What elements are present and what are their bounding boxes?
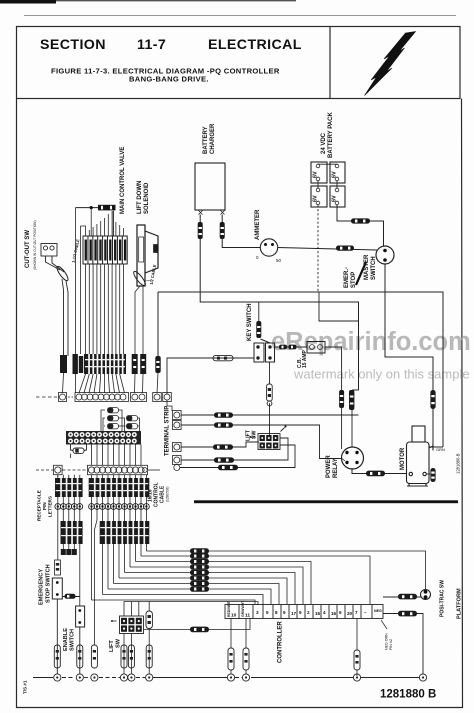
svg-text:AMMETER: AMMETER [255,209,261,240]
wire jog terminal 397 to 415 [167,400,172,411]
svg-text:LIFT DOWN: LIFT DOWN [137,181,143,214]
svg-text:BANG-BANG DRIVE.: BANG-BANG DRIVE. [129,75,209,84]
svg-text:RECEPTACLE: RECEPTACLE [37,490,42,521]
key switch S2 [254,339,275,362]
wire fuse to valve drop [112,211,114,236]
solenoid cable label [146,264,157,285]
wire ORN terminal to bus B junction [181,414,359,416]
wire charger right lead to ammeter [222,215,260,248]
wire label boxes row 477 [55,478,149,497]
svg-text:(1280/508): (1280/508) [166,487,170,502]
controller terminal block [225,605,383,619]
svg-text:11-7: 11-7 [137,37,166,53]
master switch label [344,254,377,288]
receptacle label [37,490,53,521]
svg-text:1281880-B: 1281880-B [456,453,461,474]
connector WHT/BLK relay coil wire [339,390,344,408]
connector on estop-enable link [65,594,76,599]
svg-text:STOP SWITCH: STOP SWITCH [46,564,52,603]
wire staircase above cluster [81,208,124,236]
connector BRN posi wire [398,594,417,600]
wire field valve to tstrip [76,208,124,354]
platform label [457,588,463,619]
svg-text:4: 4 [323,610,326,615]
diode cluster [101,408,140,432]
lift sw lower label [109,638,122,652]
header frame [17,27,461,99]
battery charger U1 [195,163,225,210]
battery B2 6V [330,162,345,183]
emergency stop label [39,564,52,605]
lift switch block lower [111,616,144,634]
key switch label [247,303,253,341]
lift cutout switch block [250,425,287,449]
terminal strip TS main block [66,431,141,445]
svg-text:KEY SWITCH: KEY SWITCH [247,303,253,341]
svg-text:SW: SW [252,431,258,439]
master switch S1 [376,246,394,264]
motor M [407,426,430,486]
svg-text:GRN: GRN [436,447,445,452]
wire battery interconnects [318,164,337,188]
battery B3 6V [311,186,327,207]
T/S #1 label [23,680,28,694]
wire key switch row to CB [275,346,308,348]
scan artifact faint line [24,14,456,17]
emergency stop switch [52,560,62,599]
cut-out switch label [25,220,37,270]
motor plus terminal [430,444,446,453]
svg-text:LIFT: LIFT [109,640,115,652]
svg-text:EMER.-: EMER.- [344,267,350,288]
svg-text:ELECTRICAL: ELECTRICAL [208,37,302,53]
wire lower to right terminal [383,614,423,675]
connector on key switch wire [213,355,233,360]
main control valve label [120,147,126,214]
svg-text:BATTERY: BATTERY [203,126,209,154]
posi-trac label [440,580,446,617]
svg-text:3: 3 [256,610,259,615]
connector on lower right wire [398,611,417,617]
wire coil wire to relay [341,408,343,449]
header title SECTION 11-7 ELECTRICAL [40,37,302,53]
battery pack label [321,112,334,158]
connector charger left (RED) [198,222,203,239]
wire controller bottom drops [231,619,357,677]
svg-text:eRepairinfo.com: eRepairinfo.com [271,328,471,356]
wire cut-out leads [46,256,69,356]
wire CB to relay coil [325,347,342,390]
svg-text:MOTOR: MOTOR [400,447,406,470]
svg-text:STOP: STOP [351,272,357,288]
connector labels on bend runs [190,548,209,592]
power relay K1 [342,447,364,469]
wire master drop to motor plus [429,409,433,448]
neg pin annotation [381,620,393,650]
svg-text:10: 10 [231,613,237,619]
drawing number vertical [456,453,461,474]
svg-text:20: 20 [347,611,353,616]
cut-out switch [41,244,57,257]
wire estop down [56,599,58,674]
bottom terminal circles [54,674,427,681]
lightning bolt logo [365,32,416,96]
controller cell labels [227,600,382,619]
wire bus A into motor plus [437,446,444,448]
cable label 1-1/2 [71,238,81,263]
wire terminal to key switch [167,358,254,394]
terminal strip label [165,406,171,456]
wire bends control cable to controller [92,551,426,605]
svg-text:16: 16 [331,611,337,616]
svg-text:7: 7 [355,610,358,615]
connector WHT on master drop [430,390,435,409]
watermark eRepairinfo.com [271,328,471,356]
svg-text:15 AMP: 15 AMP [302,349,308,368]
connector above key switch [256,321,261,338]
wire LT BLU terminal to relay [181,425,342,459]
connector pair on CB wire [279,345,297,350]
wire bus A from solenoid area [158,292,443,447]
receptacle connector row [36,465,160,474]
svg-text:RELAY: RELAY [333,458,339,478]
header caption [51,67,280,84]
svg-text:8: 8 [275,610,278,615]
heavy divider line [194,500,458,503]
terminal screw row [36,393,171,402]
control cable label [148,482,170,507]
battery B4 6V [330,186,345,207]
wire enable down [79,627,81,674]
connector LT GRN [218,465,238,470]
svg-text:15: 15 [315,611,321,616]
svg-text:11: 11 [245,613,250,619]
svg-text:6V: 6V [332,195,338,202]
wire lift sw feeds [124,602,258,675]
connector charger right (BLK) [220,222,225,239]
ammeter label [255,209,261,240]
svg-text:SW: SW [116,638,122,648]
connector LT BLU [214,422,233,427]
connector white below controller 3 [354,650,360,670]
wire terminal to lift cutout loop [180,445,295,468]
svg-text:NEG: NEG [374,609,382,613]
ammeter M1 [256,239,282,263]
scan artifact top bar [0,0,296,4]
svg-text:9: 9 [283,610,286,615]
svg-text:NEG ORN: NEG ORN [385,633,389,650]
svg-text:CHARGER: CHARGER [210,123,216,154]
svg-text:–: – [364,610,367,615]
svg-text:5: 5 [266,610,269,615]
connector on lift cutout wire [213,444,233,449]
posi-trac switch [421,590,431,600]
lift sw block label [246,429,258,441]
page number [380,689,436,701]
wire relay to motor [352,468,406,474]
wire charger left lead / bus B [200,215,358,391]
svg-text:6V: 6V [313,171,319,178]
battery charger label [203,123,216,154]
svg-text:6V: 6V [313,195,319,202]
bottom terminal bus dashed [33,677,419,679]
circuit breaker CB 15A [307,342,325,354]
wire battery negative dotted [317,205,319,292]
wire bus B drop to relay [352,390,359,447]
terminal column right of strip [173,411,182,471]
jumper loop below strip [71,445,87,454]
connector white below controller 1 [228,648,234,670]
svg-text:LETTERS: LETTERS [48,496,53,517]
svg-text:MAIN CONTROL VALVE: MAIN CONTROL VALVE [120,147,126,214]
receptacle pin circles row [55,504,149,510]
svg-text:17: 17 [291,611,297,616]
wire main bus top [76,207,99,209]
power relay label [326,455,339,478]
battery B1 6V [311,162,327,183]
connector below motor [430,468,435,482]
svg-text:POSI-TRAC SW: POSI-TRAC SW [440,580,446,617]
watermark subtitle [293,367,470,382]
svg-text:SECTION: SECTION [40,37,106,53]
wires label row to terminal row [63,373,159,393]
wire master switch down to motor plus [385,264,433,390]
svg-text:SWITCH: SWITCH [70,629,76,651]
connector BLK 1GA [366,471,385,477]
wire key switch bottom to lift cutout [269,362,271,435]
controller label [278,621,284,663]
wire label row above terminals [60,354,161,374]
enable switch label [63,628,76,651]
wire key switch feed from bus [258,302,260,321]
svg-text:EMERGENCY: EMERGENCY [39,569,45,605]
connector TAN [214,457,234,462]
svg-text:6: 6 [339,610,342,615]
node junction main [90,206,93,209]
wire label cluster top (valve wires) [83,236,127,264]
connector on lift run [190,627,209,633]
svg-text:50: 50 [276,258,282,263]
enable switch [76,606,85,627]
svg-text:PIN: PIN [42,502,47,510]
svg-text:1281880 B: 1281880 B [380,689,436,701]
svg-text:POWER: POWER [326,455,332,478]
wire terminal to lift cutout top row [181,442,259,447]
pill connector right of lift sw [146,611,152,629]
wire estop to enable [62,596,80,598]
svg-text:BATTERY PACK: BATTERY PACK [328,112,334,158]
svg-text:24 VDC: 24 VDC [321,132,327,154]
CB label [297,349,308,368]
connector GRY on ammeter wire [336,246,354,251]
connector white below controller 2 [243,648,249,670]
wire neg to posi-trac [383,596,421,598]
svg-text:ENABLE: ENABLE [63,628,69,651]
wire ammeter to master switch [278,248,377,251]
connector 40A on battery wire [351,218,370,223]
lift down solenoid label [137,181,150,214]
wire label boxes row 520 [61,521,150,544]
motor label [400,447,406,470]
svg-text:PLATFORM: PLATFORM [457,588,463,619]
svg-text:SOLENOID: SOLENOID [144,182,150,214]
svg-text:MASTER: MASTER [364,254,370,280]
fuse F1 main [98,205,116,211]
svg-text:6V: 6V [332,171,338,178]
ring terminal below connector [267,401,272,406]
connector on bus B drop [349,390,354,410]
connector RED below key switch [267,384,273,401]
wire motor right terminal stub [426,473,430,475]
svg-text:TERMINAL STRIP: TERMINAL STRIP [165,406,171,456]
wire battery positive to master [337,205,384,246]
svg-text:PIN #2: PIN #2 [389,639,393,650]
solenoid cable sheath [132,270,147,287]
wire terminal to lift cutout row2 [181,438,288,460]
spare wire square terminals [61,549,77,555]
wire bus A left drop to terminal [157,292,159,356]
connector ORN [214,412,233,417]
cable wire field below receptacle [58,475,147,645]
svg-text:SWITCH: SWITCH [371,256,377,280]
lift down solenoid [137,225,158,286]
svg-text:2: 2 [307,610,310,615]
cable sheath symbol [55,265,69,282]
svg-text:CONTROLLER: CONTROLLER [278,621,284,663]
svg-text:T/S #1: T/S #1 [23,680,28,694]
wires strip to receptacle [58,445,141,478]
charger terminal x marks [199,211,225,215]
svg-text:CUT-OUT SW: CUT-OUT SW [25,230,31,268]
connectors white above bottom terminals left [54,645,152,668]
wire solenoid leads down [135,286,143,354]
svg-text:(SHOWN IN CUT-OUT POSITION): (SHOWN IN CUT-OUT POSITION) [33,220,37,270]
svg-text:9: 9 [299,610,302,615]
wire battery neg L to relay branch [319,292,359,321]
